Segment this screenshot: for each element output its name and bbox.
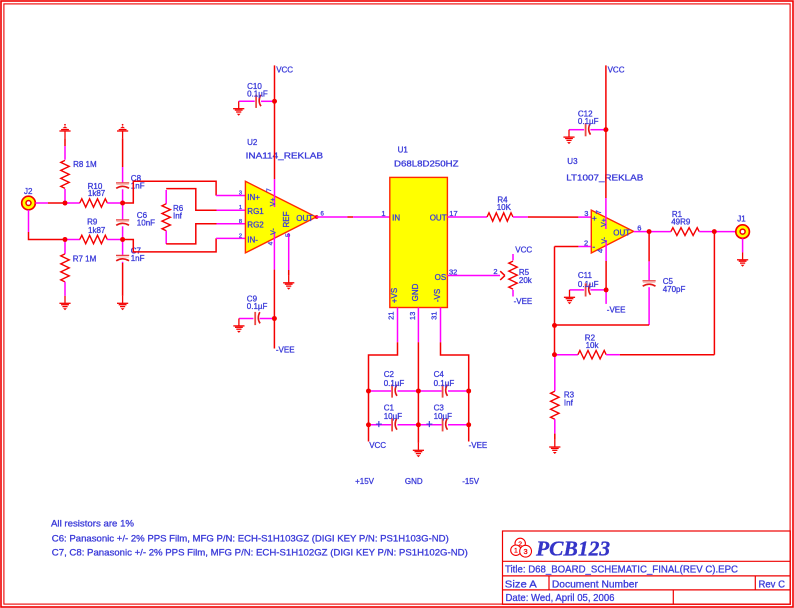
svg-text:All resistors are 1%: All resistors are 1%	[51, 519, 134, 529]
wire +VS to VCC rail	[369, 342, 398, 441]
U2 pin 3 number	[239, 190, 242, 196]
wire R1 to J1	[714, 231, 736, 233]
wire U3 pin2 net	[555, 247, 592, 355]
node GND-C1 junction	[416, 422, 421, 427]
ground below C7	[117, 296, 128, 310]
capacitor C5	[643, 232, 686, 325]
R5 pin 2 number	[493, 267, 497, 276]
svg-text:Title: D68_BOARD_SCHEMATIC_FIN: Title: D68_BOARD_SCHEMATIC_FINAL(REV C).…	[505, 564, 738, 576]
node C12 junction	[604, 127, 609, 132]
U1 pin label IN	[392, 214, 400, 223]
svg-text:0.1µF: 0.1µF	[578, 117, 599, 126]
svg-text:7: 7	[266, 188, 273, 192]
wire node C8 to U2 IN+	[123, 181, 246, 203]
svg-text:D68L8D250HZ: D68L8D250HZ	[394, 159, 459, 169]
svg-text:Inf: Inf	[173, 212, 183, 221]
capacitor C10	[239, 82, 275, 108]
junction dot overdraw	[416, 389, 421, 394]
node GND-C2 junction	[416, 389, 421, 394]
U2 pin label V+	[270, 198, 277, 207]
capacitor C6	[116, 203, 155, 240]
svg-text:0.1µF: 0.1µF	[247, 90, 268, 99]
node VCC-C1 junction	[366, 422, 371, 427]
U3 pin label V-	[601, 236, 608, 243]
svg-text:10nF: 10nF	[137, 219, 155, 228]
svg-text:3: 3	[584, 209, 588, 218]
svg-text:C6: Panasonic +/- 2% PPS Film,: C6: Panasonic +/- 2% PPS Film, MFG P/N: …	[52, 533, 449, 543]
wire flag to R8	[64, 138, 66, 146]
capacitor C11	[570, 271, 607, 297]
svg-text:Inf: Inf	[564, 399, 574, 408]
svg-text:V-: V-	[270, 228, 277, 235]
svg-text:J2: J2	[24, 187, 33, 196]
junction dot overdraw	[552, 323, 557, 328]
svg-text:R8 1M: R8 1M	[73, 160, 97, 169]
svg-text:2: 2	[493, 267, 497, 276]
junction dot overdraw	[416, 422, 421, 427]
wire VCC to U3 V+	[605, 65, 607, 229]
U1 pin label GND	[411, 283, 420, 301]
node VEE-C4 junction	[466, 389, 471, 394]
capacitor C4	[418, 370, 468, 397]
wire U1 GND lead	[417, 308, 419, 343]
op-amp U2	[245, 138, 323, 253]
junction dot overdraw	[366, 422, 371, 427]
svg-text:C11: C11	[578, 271, 593, 280]
U2 pin 1 number	[239, 205, 242, 211]
svg-text:Size A: Size A	[505, 579, 537, 591]
svg-text:V+: V+	[270, 198, 277, 207]
wire J1 to ground	[742, 238, 744, 252]
svg-text:49R9: 49R9	[671, 218, 691, 227]
node R1 out junction	[712, 229, 717, 234]
junction dot overdraw	[712, 229, 717, 234]
wire U1 OS to R5	[447, 275, 500, 277]
rev text	[759, 579, 786, 591]
wire node C6 to U2 IN-	[123, 238, 246, 252]
svg-text:Date: Wed, April 05, 2006: Date: Wed, April 05, 2006	[506, 592, 615, 604]
ground at C10	[233, 101, 244, 115]
U2 pin 7 number	[266, 188, 273, 192]
resistor R3	[551, 356, 575, 434]
svg-text:U3: U3	[567, 157, 578, 166]
svg-text:0.1µF: 0.1µF	[247, 302, 268, 311]
wire U3 V- to -VEE	[605, 240, 607, 304]
GND label	[405, 477, 423, 486]
svg-text:IN: IN	[392, 214, 400, 223]
svg-text:4: 4	[595, 249, 604, 253]
wire C7 to ground	[122, 263, 124, 296]
U2 output vertex dot	[315, 215, 319, 219]
capacitor C9	[239, 295, 275, 326]
svg-text:REF: REF	[282, 211, 291, 227]
node VEE-C3 junction	[466, 422, 471, 427]
svg-text:R7 1M: R7 1M	[73, 254, 97, 263]
capacitor C8	[116, 167, 145, 203]
wire C5 to pin2 net	[555, 324, 650, 326]
date text	[506, 592, 615, 604]
wire R3 to ground	[554, 434, 556, 440]
svg-text:C7, C8: Panasonic +/- 2% PPS: C7, C8: Panasonic +/- 2% PPS Film, MFG P…	[52, 548, 468, 558]
wire U1 +VS lead	[397, 308, 399, 343]
junction dot overdraw	[120, 201, 125, 206]
U2 pin label OUT	[296, 214, 313, 223]
resistor R10	[65, 182, 123, 207]
junction dot overdraw	[63, 237, 68, 242]
svg-text:2: 2	[518, 541, 522, 548]
U3 pin 7 number	[594, 210, 603, 214]
svg-text:7: 7	[594, 210, 603, 214]
resistor R6	[162, 190, 184, 244]
ground at C9	[233, 319, 244, 333]
node U3 OUT junction	[647, 229, 652, 234]
VCC label R5	[515, 246, 532, 255]
U1 pin 32 number	[449, 268, 457, 277]
VCC label rail	[369, 441, 386, 450]
resistor R7	[61, 240, 97, 296]
-VEE label R5	[514, 297, 533, 306]
U1 pin 21 number	[386, 312, 395, 320]
wire U2 OUT to U1 IN	[316, 216, 389, 218]
svg-text:5: 5	[285, 233, 292, 237]
svg-text:VCC: VCC	[276, 66, 293, 75]
R5 wiper arrow	[500, 271, 505, 280]
wire J2 down to R9 row	[29, 210, 66, 240]
wire R6 top to U2 RG1	[166, 189, 245, 211]
resistor R2	[556, 334, 620, 359]
U1 pin 31 number	[429, 312, 438, 320]
VCC label U3	[608, 66, 625, 75]
U2 pin label RG1	[247, 207, 264, 216]
wire J2 to node A	[35, 202, 65, 204]
ground at J1	[737, 252, 748, 266]
U1 pin label +VS	[390, 288, 399, 303]
U1 pin 1 number	[381, 209, 385, 218]
svg-text:RG1: RG1	[247, 207, 264, 216]
svg-text:-VEE: -VEE	[607, 306, 626, 315]
svg-text:C4: C4	[434, 370, 445, 379]
resistor R8	[61, 146, 97, 203]
svg-text:U1: U1	[398, 146, 409, 155]
wire R6 bottom to U2 RG2	[166, 224, 245, 244]
junction dot overdraw	[647, 229, 652, 234]
node R2 junction	[552, 352, 557, 357]
U3 minus marker	[592, 242, 595, 252]
power flag above R8	[59, 124, 70, 138]
ground below R3	[549, 440, 560, 454]
svg-text:-VEE: -VEE	[514, 297, 533, 306]
node VCC-C2 junction	[366, 389, 371, 394]
ground at U2 REF	[283, 275, 294, 289]
svg-text:3: 3	[239, 190, 242, 196]
svg-text:PCB123: PCB123	[535, 536, 610, 560]
svg-text:V-: V-	[601, 236, 608, 243]
svg-text:1: 1	[239, 205, 242, 211]
svg-text:-VS: -VS	[433, 289, 442, 302]
svg-text:INA114_REKLAB: INA114_REKLAB	[246, 150, 324, 160]
U2 pin 8 number	[239, 219, 242, 225]
svg-text:1nF: 1nF	[131, 254, 145, 263]
capacitor C3	[418, 403, 468, 431]
wire U3 OUT	[634, 231, 649, 233]
svg-text:10K: 10K	[497, 203, 512, 212]
svg-text:10µF: 10µF	[384, 412, 403, 421]
svg-text:20k: 20k	[519, 276, 533, 285]
wire R2 feedback	[620, 232, 715, 355]
svg-text:GND: GND	[411, 283, 420, 301]
U1 pin label OUT	[430, 214, 447, 223]
note C7 C8	[52, 548, 468, 558]
svg-text:Document Number: Document Number	[552, 579, 638, 591]
ground at C12	[563, 130, 574, 144]
note C6	[52, 533, 449, 543]
node A junction	[63, 201, 68, 206]
wire GND rail	[417, 342, 419, 443]
junction dot overdraw	[466, 422, 471, 427]
resistor R5	[509, 254, 533, 297]
svg-text:OS: OS	[435, 273, 447, 282]
svg-text:4: 4	[267, 241, 274, 245]
ground below R7	[59, 296, 70, 310]
svg-text:VCC: VCC	[369, 441, 386, 450]
node C11 junction	[604, 288, 609, 293]
U3 plus marker	[592, 213, 597, 223]
U1 pin label -VS	[433, 289, 442, 302]
wire U2 REF to ground	[288, 233, 290, 275]
document number text	[552, 579, 638, 591]
svg-text:+: +	[426, 419, 433, 431]
svg-text:0.1µF: 0.1µF	[434, 379, 455, 388]
node C10 junction	[272, 99, 277, 104]
U2 pin label IN+	[247, 193, 260, 202]
junction dot overdraw	[552, 352, 557, 357]
op-amp U3	[566, 157, 643, 253]
svg-text:-VEE: -VEE	[469, 441, 488, 450]
size text	[505, 579, 537, 591]
svg-text:10k: 10k	[586, 341, 600, 350]
junction dot overdraw	[272, 316, 277, 321]
U1 pin 17 number	[449, 209, 457, 218]
U2 pin 6 number	[321, 212, 325, 218]
junction dot overdraw	[466, 389, 471, 394]
svg-text:IN-: IN-	[247, 235, 258, 244]
title block table	[503, 531, 791, 604]
svg-text:OUT: OUT	[296, 214, 313, 223]
svg-text:1: 1	[381, 209, 385, 218]
svg-text:13: 13	[408, 312, 417, 320]
+15V label	[355, 477, 375, 486]
U3 pin label OUT	[613, 228, 630, 237]
ground below GND rail	[413, 443, 424, 457]
svg-text:1k87: 1k87	[88, 226, 106, 235]
svg-text:LT1007_REKLAB: LT1007_REKLAB	[566, 172, 643, 182]
wire U1 -VS lead	[440, 308, 442, 343]
node C5 junction	[552, 323, 557, 328]
U2 pin label V-	[270, 228, 277, 235]
-15V label	[462, 477, 480, 486]
node B junction	[63, 237, 68, 242]
U2 pin 5 number	[285, 233, 292, 237]
U2 pin 4 number	[267, 241, 274, 245]
note resistors	[51, 519, 134, 529]
wire VCC to U2 V+	[274, 65, 276, 207]
node C8 junction	[120, 201, 125, 206]
svg-text:470pF: 470pF	[663, 285, 686, 294]
junction dot overdraw	[120, 237, 125, 242]
U3 pin 2 number	[584, 239, 588, 248]
svg-text:V+: V+	[601, 218, 608, 227]
PCB123 logo text	[535, 536, 610, 560]
U2 pin 2 number	[239, 234, 242, 240]
svg-text:3: 3	[524, 547, 528, 556]
junction dot overdraw	[272, 99, 277, 104]
U1 pin label OS	[435, 273, 447, 282]
svg-text:RG2: RG2	[247, 221, 264, 230]
svg-text:OUT: OUT	[613, 228, 630, 237]
svg-text:1: 1	[514, 548, 518, 555]
power flag above C8	[117, 124, 128, 138]
svg-text:+: +	[376, 419, 383, 431]
junction dot overdraw	[366, 389, 371, 394]
svg-text:10µF: 10µF	[434, 412, 453, 421]
wire -VS to -VEE rail	[441, 342, 469, 441]
U3 pin 6 number	[637, 223, 641, 232]
connector J1	[736, 215, 750, 239]
svg-text:31: 31	[429, 312, 438, 320]
svg-text:VCC: VCC	[608, 66, 625, 75]
connector J2	[22, 187, 36, 210]
svg-text:J1: J1	[737, 215, 746, 224]
svg-text:+VS: +VS	[390, 288, 399, 303]
-VEE label rail	[469, 441, 488, 450]
title text	[505, 564, 738, 576]
svg-text:-15V: -15V	[462, 477, 480, 486]
svg-text:2: 2	[239, 234, 242, 240]
svg-text:+15V: +15V	[355, 477, 375, 486]
wire flag to C8	[122, 138, 124, 167]
-VEE label U2	[276, 346, 295, 355]
junction dot overdraw	[604, 127, 609, 132]
U2 pin label IN-	[247, 235, 258, 244]
U3 pin 4 number	[595, 249, 604, 253]
junction dot overdraw	[604, 288, 609, 293]
svg-text:0.1µF: 0.1µF	[578, 280, 599, 289]
capacitor C2	[369, 370, 419, 397]
junction dot overdraw	[63, 201, 68, 206]
U2 pin label RG2	[247, 221, 264, 230]
U1 pin 13 number	[408, 312, 417, 320]
node C6 junction	[120, 237, 125, 242]
resistor R1	[649, 210, 714, 236]
svg-text:C2: C2	[384, 370, 395, 379]
svg-text:U2: U2	[247, 138, 258, 147]
U2 pin label REF	[282, 211, 291, 227]
capacitor C1	[369, 403, 419, 431]
node C9 junction	[272, 316, 277, 321]
U3 pin 3 number	[584, 209, 588, 218]
svg-text:8: 8	[239, 219, 242, 225]
svg-text:GND: GND	[405, 477, 423, 486]
svg-text:IN+: IN+	[247, 193, 260, 202]
VCC label U2	[276, 66, 293, 75]
filter U1	[390, 146, 459, 308]
svg-text:VCC: VCC	[515, 246, 532, 255]
svg-text:0.1µF: 0.1µF	[384, 379, 405, 388]
wire U2 V- to -VEE	[273, 233, 275, 349]
svg-text:OUT: OUT	[430, 214, 447, 223]
U3 pin label V+	[601, 218, 608, 227]
svg-text:1k87: 1k87	[88, 189, 106, 198]
ground at C11	[564, 290, 575, 304]
svg-text:-VEE: -VEE	[276, 346, 295, 355]
wire R4 to U3 pin3	[528, 216, 591, 218]
capacitor C7	[116, 240, 145, 264]
-VEE label U3	[607, 306, 626, 315]
PCB123 logo circles	[511, 538, 532, 557]
resistor R4	[447, 196, 528, 222]
svg-text:Rev C: Rev C	[759, 579, 786, 591]
svg-text:21: 21	[386, 312, 395, 320]
resistor R9	[65, 217, 123, 243]
capacitor C12	[569, 110, 606, 137]
